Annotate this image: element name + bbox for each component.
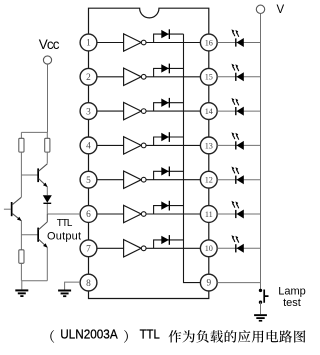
svg-text:1: 1 [86,39,91,49]
svg-text:12: 12 [205,176,213,185]
power terminal V [256,4,284,16]
svg-text:Output: Output [47,231,81,243]
wire pin 15 to LED [217,76,260,78]
diode D1 internal flyback [154,29,184,42]
power terminal Vcc [43,56,51,64]
inverter channel 5 (input pin 5) [97,171,200,188]
svg-text:V: V [277,4,285,16]
node pin 7 [80,240,97,257]
svg-text:TTL: TTL [140,328,160,342]
diode D7 internal flyback [154,235,184,248]
LED 2 [232,64,244,82]
node pin 10 [200,240,217,257]
svg-text:13: 13 [205,141,213,150]
resistor R2 [45,138,50,152]
node pin 15 [200,68,217,85]
resistor R3 [19,250,24,263]
ground (TTL stage) [15,281,28,297]
LED 7 [232,235,244,253]
diode D3 internal flyback [154,98,184,111]
wire pin 11 to LED [217,213,260,215]
op-amp/IC body ULN2003A outline with pin-1 notch [89,8,209,298]
svg-text:4: 4 [86,142,91,152]
LED 6 [232,201,244,219]
node pin 5 [80,171,97,188]
diode D1 (base-emitter shift diode) [43,187,52,214]
wire pin 10 to LED [217,247,260,249]
node pin 6 [80,206,97,223]
svg-text:2: 2 [86,73,91,83]
svg-text:8: 8 [86,279,91,289]
wire pin 16 to LED [217,42,260,44]
svg-text:3: 3 [86,107,91,117]
inverter channel 4 (input pin 4) [97,137,200,154]
inverter channel 1 (input pin 1) [97,34,200,51]
node pin 13 [200,137,217,154]
wire: internal freewheel-diode common bus to pin 9 [184,34,201,283]
inverter channel 6 (input pin 6) [97,205,200,222]
wire pin 13 to LED [217,144,260,146]
wire pin 9 to lamp-test node [217,282,260,284]
switch SW lamp test (push-button, normally open) [259,289,269,315]
svg-text:10: 10 [205,244,213,253]
LED 4 [232,132,244,150]
ground (lamp test) [254,314,267,321]
svg-text:Lamp: Lamp [278,286,306,298]
LED 3 [232,98,244,116]
LED 1 [232,29,244,47]
resistor R1 [19,138,24,152]
svg-text:9: 9 [206,279,211,289]
wire R2 bottom to Q2 collector [46,152,48,164]
wire R3 to ground bus, Q3 emitter to ground bus [21,247,47,280]
inverter channel 2 (input pin 2) [97,68,200,85]
svg-text:TTL: TTL [57,218,73,229]
node pin 14 [200,103,217,120]
transistor Q3 (output pull-down) [37,214,47,248]
node pin 1 [80,34,97,51]
node pin 12 [200,171,217,188]
transistor Q1 (phase splitter) [4,197,22,221]
label Lamp test [278,286,306,310]
diode D4 internal flyback [154,132,184,145]
wire TTL output node to pin 6 [47,213,80,215]
wire Q1 emitter down to tee [21,221,37,250]
label TTL Output [47,218,81,242]
svg-text:11: 11 [205,210,213,219]
wire R1 bottom to Q2 base / Q1 collector [21,152,37,197]
transistor Q2 (NPN, top of totem pole) [37,164,47,187]
wire pin 8 to ground [65,282,81,289]
svg-text:15: 15 [205,73,213,82]
svg-text:5: 5 [86,176,91,186]
ground (pin 8) [58,290,71,298]
svg-text:16: 16 [205,38,213,47]
caption text [50,328,305,343]
inverter channel 7 (input pin 7) [97,240,200,257]
wire Vcc down [21,64,47,138]
svg-text:Vcc: Vcc [39,37,60,52]
node pin 3 [80,103,97,120]
node pin 4 [80,137,97,154]
inverter channel 3 (input pin 3) [97,102,200,119]
wire: V supply rail [260,14,262,290]
svg-text:test: test [283,297,301,309]
diode D6 internal flyback [154,201,184,214]
diode D2 internal flyback [154,64,184,77]
LED 5 [232,167,244,185]
diode D5 internal flyback [154,167,184,180]
node pin 8 [80,274,97,291]
svg-text:7: 7 [86,245,91,255]
node pin 11 [200,206,217,223]
wire pin 14 to LED [217,110,260,112]
node pin 16 [200,34,217,51]
svg-text:ULN2003A: ULN2003A [60,328,118,342]
svg-text:14: 14 [205,107,213,116]
node pin 2 [80,68,97,85]
node pin 9 [200,274,217,291]
wire pin 12 to LED [217,179,260,181]
svg-text:6: 6 [86,210,91,220]
